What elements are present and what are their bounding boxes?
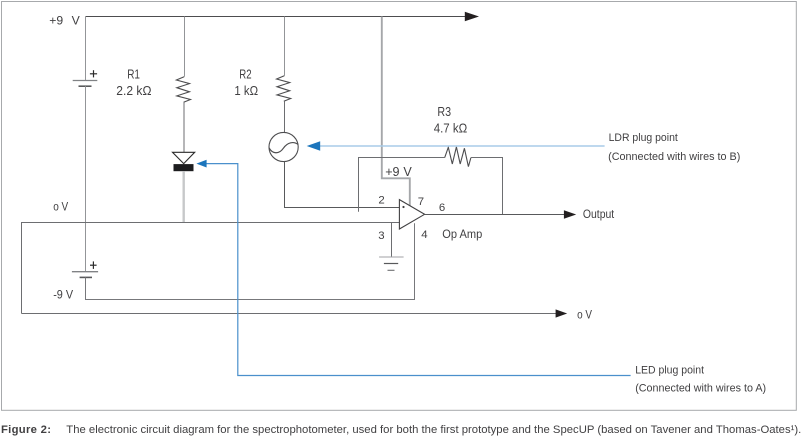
wire: 0V rail to op-amp pin 3 <box>22 223 408 314</box>
label Output <box>583 207 615 221</box>
pin 2 label <box>378 194 384 206</box>
label +9 V (top left) <box>49 14 80 28</box>
svg-text:(Connected with wires to B): (Connected with wires to B) <box>608 151 741 163</box>
svg-text:4.7 kΩ: 4.7 kΩ <box>434 121 468 135</box>
pin 4 label <box>421 229 427 241</box>
blue wire: LDR plug point line <box>307 141 605 151</box>
label o V (right) <box>577 307 592 321</box>
wire: feedback loop to output node <box>471 158 503 215</box>
svg-text:1 kΩ: 1 kΩ <box>234 84 258 98</box>
wire: R2 to lamp circle <box>284 101 286 132</box>
wire: feedback loop from pin 2 <box>359 158 445 212</box>
svg-text:LED plug point: LED plug point <box>635 364 705 376</box>
svg-text:-9 V: -9 V <box>53 288 73 302</box>
resistor R3 <box>445 147 471 167</box>
wire: output with arrow <box>425 210 577 218</box>
svg-text:o V: o V <box>577 307 592 321</box>
svg-text:+9: +9 <box>49 14 63 28</box>
svg-text:4: 4 <box>421 229 427 241</box>
LED D1 <box>173 152 195 171</box>
svg-text:R3: R3 <box>437 105 451 119</box>
svg-text:Op Amp: Op Amp <box>442 229 482 241</box>
svg-text:LDR plug point: LDR plug point <box>609 132 679 144</box>
wire: battery B1 to battery B2 <box>85 86 87 272</box>
wire: R2 branch from +9V rail <box>284 17 286 76</box>
svg-text:2: 2 <box>378 194 384 206</box>
battery B1 <box>73 17 98 87</box>
wire: +9V supply drop to op amp pin 7 <box>382 17 410 206</box>
svg-text:R2: R2 <box>239 67 251 81</box>
battery B2 <box>72 261 98 277</box>
svg-text:Figure 2:: Figure 2: <box>1 424 51 436</box>
svg-text:+9: +9 <box>385 165 399 179</box>
svg-text:7: 7 <box>418 196 424 208</box>
svg-text:3: 3 <box>378 230 384 242</box>
wire: R1 to LED <box>183 102 185 152</box>
svg-text:V: V <box>403 165 412 179</box>
op-amp U1 <box>399 200 424 229</box>
svg-text:(Connected with wires to A): (Connected with wires to A) <box>635 383 766 395</box>
resistor R1 <box>176 77 190 103</box>
wire: 0V bottom rail with arrow <box>22 309 568 317</box>
label -9 V <box>53 288 73 302</box>
wire: +9V top rail with arrow <box>86 12 480 21</box>
wire: pin 3 ground branch <box>391 223 393 257</box>
wire: -9V rail to op-amp pin 4 <box>86 223 415 299</box>
svg-text:V: V <box>72 14 81 28</box>
pin 7 label <box>418 196 424 208</box>
label LDR plug point <box>608 132 741 163</box>
resistor R2 <box>277 76 291 102</box>
label R2 1 kΩ <box>234 67 258 98</box>
svg-text:2.2 kΩ: 2.2 kΩ <box>116 84 151 98</box>
wire: lamp to op-amp pin 2 <box>285 162 404 208</box>
pin 6 label <box>439 202 445 214</box>
ground <box>379 257 404 270</box>
pin 3 label <box>378 230 384 242</box>
label R1 2.2 kΩ <box>116 67 151 98</box>
svg-text:The electronic circuit diagram: The electronic circuit diagram for the s… <box>66 424 801 436</box>
svg-text:Output: Output <box>583 207 615 221</box>
wire: R1 branch from +9V rail <box>184 17 186 77</box>
svg-text:6: 6 <box>439 202 445 214</box>
wire: LED to 0V rail <box>182 171 184 222</box>
label R3 4.7 kΩ <box>434 105 468 135</box>
label +9 V (op amp supply) <box>385 165 412 179</box>
svg-text:o V: o V <box>53 200 68 214</box>
label Op Amp <box>442 229 482 241</box>
label LED plug point <box>635 364 766 394</box>
svg-text:R1: R1 <box>127 67 140 81</box>
lamp socket (circle with sine) <box>269 132 298 161</box>
caption <box>1 424 801 436</box>
blue wire: LED plug point line <box>196 160 630 376</box>
label o V (left) <box>53 200 68 214</box>
